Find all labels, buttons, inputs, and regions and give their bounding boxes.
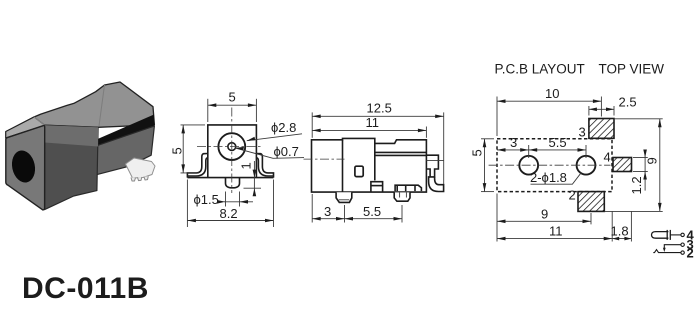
inner circle phi0.7 <box>228 143 236 151</box>
svg-text:TOP VIEW: TOP VIEW <box>599 62 665 77</box>
svg-text:11: 11 <box>366 115 380 130</box>
dim 12.5 line <box>312 115 444 117</box>
dim 1.8 line <box>612 238 631 240</box>
dim 10 extension lines <box>496 97 498 137</box>
leader phi0.7 <box>235 148 304 158</box>
front view left flange inner line <box>187 158 207 176</box>
svg-text:DC-011B: DC-011B <box>22 272 149 305</box>
side inner vertical line mid/right <box>374 143 376 180</box>
pcb horizontal centerline <box>489 164 611 166</box>
svg-text:ϕ0.7: ϕ0.7 <box>274 144 299 159</box>
pcb hole left 1.8 <box>519 156 538 175</box>
svg-text:3: 3 <box>579 125 586 140</box>
symbol pin3 terminal <box>681 243 684 246</box>
svg-text:5: 5 <box>470 149 485 156</box>
svg-text:9: 9 <box>645 157 660 164</box>
front view right flange <box>256 154 273 178</box>
svg-text:1.2: 1.2 <box>629 176 644 194</box>
dim 10 line <box>497 100 601 102</box>
side body outline <box>312 138 427 192</box>
3d top seam line <box>99 85 105 126</box>
side thin contact slot lines <box>376 151 427 153</box>
front view right flange inner line <box>256 158 273 176</box>
svg-text:5: 5 <box>229 90 236 105</box>
3d barrel hole <box>9 148 38 184</box>
svg-text:ϕ2.8: ϕ2.8 <box>271 120 296 135</box>
dim 5 left line <box>484 139 486 192</box>
dim 8.2 extension lines <box>186 180 188 228</box>
svg-text:4: 4 <box>604 150 611 165</box>
dim 3 inner extension ticks <box>528 145 530 158</box>
svg-text:12.5: 12.5 <box>367 101 392 116</box>
dim 3 line <box>312 218 344 220</box>
dim 5 top extension lines <box>207 99 209 122</box>
symbol barrel <box>652 232 669 239</box>
3d front face <box>6 126 45 210</box>
leader phi2.8 <box>247 134 302 141</box>
dim 1 ref line <box>244 187 262 189</box>
right 9 top extension line <box>614 118 663 120</box>
pcb pad 3 hatched <box>589 119 614 139</box>
dim 1.2 line with outside arrows <box>644 150 646 191</box>
3d front block side face <box>45 125 99 209</box>
side under-tab detail <box>371 182 383 192</box>
pcb pad 4 hatched <box>613 158 632 172</box>
dim 11 bottom right ext line <box>611 211 613 241</box>
side J-hook leg <box>429 177 444 192</box>
dim 9 bottom line <box>497 220 591 222</box>
svg-text:5.5: 5.5 <box>549 135 567 150</box>
dim 2.5 extension lines <box>588 106 590 116</box>
dim 3 / 5.5 extension lines <box>311 194 313 223</box>
right 9 bottom extension line <box>605 210 663 212</box>
dim 9 bottom ext line <box>590 213 592 224</box>
3d black stripe recess <box>97 115 155 146</box>
pcb pad 2 hatched <box>578 192 604 212</box>
dim 12.5 extension lines <box>311 112 313 137</box>
dim 5 left ext lines <box>481 138 494 140</box>
pcb hole right 1.8 <box>577 156 596 175</box>
label 2-phi1.8 underline and leader <box>531 172 582 184</box>
svg-text:ϕ1.5: ϕ1.5 <box>194 192 219 207</box>
dim 1.2 ext lines <box>633 157 648 159</box>
svg-text:3: 3 <box>324 204 331 219</box>
svg-text:P.C.B LAYOUT: P.C.B LAYOUT <box>495 62 585 77</box>
svg-text:2: 2 <box>569 188 576 203</box>
svg-text:1.8: 1.8 <box>611 224 629 239</box>
svg-text:10: 10 <box>545 86 559 101</box>
vertical centerline <box>231 108 233 194</box>
svg-text:5.5: 5.5 <box>363 204 381 219</box>
side bracket detail <box>395 185 421 191</box>
front view body outline <box>208 125 257 178</box>
symbol barrel tip bars <box>666 230 668 240</box>
dim 5 top line <box>208 104 257 106</box>
svg-text:5: 5 <box>170 147 185 154</box>
dim 5 left extension lines <box>181 124 206 126</box>
symbol pin4 wire <box>670 234 681 236</box>
3d white solder lug <box>126 158 156 178</box>
pcb dashed body outline <box>497 139 612 192</box>
dim 11 bottom line <box>497 238 612 240</box>
side inner vertical line left/mid <box>342 140 344 192</box>
svg-text:2.5: 2.5 <box>619 95 637 110</box>
dim 8.2 line <box>187 220 273 222</box>
symbol pin4 terminal <box>681 233 684 236</box>
dim phi1.5 extension lines <box>225 192 227 207</box>
3d front side upper band <box>45 125 98 146</box>
svg-text:11: 11 <box>549 224 563 239</box>
side switch tab <box>426 155 438 177</box>
front view bottom edge <box>187 177 273 179</box>
3d top faces band <box>6 82 155 138</box>
3d top step line <box>34 117 45 125</box>
3d rear side face <box>97 126 155 175</box>
3d front top band lighter <box>6 117 45 138</box>
horizontal centerline <box>197 146 262 148</box>
symbol pin3 wire <box>664 245 681 250</box>
front view left flange <box>187 154 207 178</box>
dim 5 left line <box>182 125 184 173</box>
dim 11 extension line <box>425 127 427 138</box>
symbol pin2 terminal <box>681 251 684 254</box>
dim 3 inner line <box>497 149 529 151</box>
dim 2.5 line <box>589 108 614 110</box>
3d lug teeth <box>131 176 148 181</box>
dim 11 line <box>312 129 426 131</box>
dim 1.8 right ext line <box>630 211 632 241</box>
side small square detail <box>355 166 363 176</box>
symbol pin2 wire with switch bump <box>653 250 681 253</box>
dim 1 line <box>253 161 255 196</box>
symbol pin3 contact arrow <box>663 248 666 252</box>
svg-text:8.2: 8.2 <box>220 206 238 221</box>
front pin phi1.5 <box>226 178 240 188</box>
big circle phi2.8 <box>218 133 245 160</box>
dim 5.5 line <box>345 218 403 220</box>
svg-text:2-ϕ1.8: 2-ϕ1.8 <box>530 170 567 185</box>
svg-text:3: 3 <box>510 135 517 150</box>
dim 5.5 inner line <box>529 149 586 151</box>
dim 11 bottom left ext line <box>496 194 498 242</box>
side right pin <box>394 192 410 201</box>
svg-text:2: 2 <box>687 246 694 261</box>
side centerline <box>304 158 345 160</box>
svg-text:1: 1 <box>238 162 253 169</box>
right 9 dim line <box>659 119 661 212</box>
side left pin <box>336 192 352 202</box>
dim phi1.5 line and outside arrows <box>224 201 253 203</box>
svg-text:9: 9 <box>541 207 548 222</box>
